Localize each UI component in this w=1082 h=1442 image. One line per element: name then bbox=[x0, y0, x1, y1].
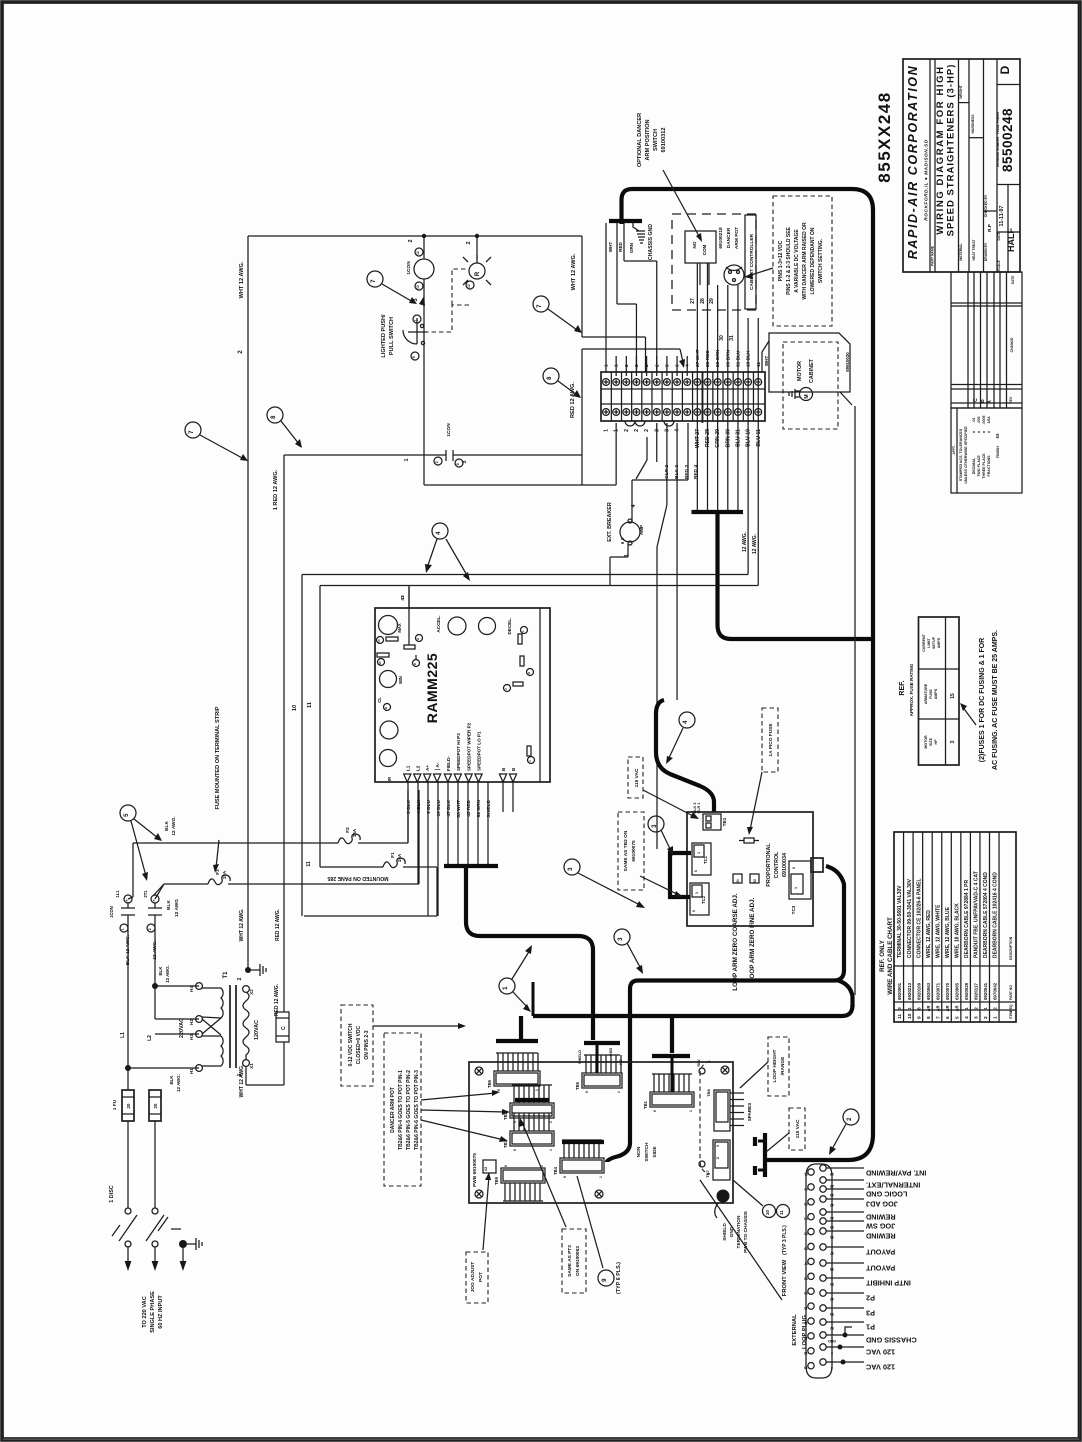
svg-text:SWITCH: SWITCH bbox=[644, 1142, 650, 1161]
svg-text:39: 39 bbox=[830, 1225, 834, 1229]
svg-text:TB6: TB6 bbox=[487, 1079, 492, 1088]
svg-text:POT: POT bbox=[478, 1272, 484, 1282]
0-12 vdc switch tag bbox=[341, 1005, 373, 1086]
svg-text:B: B bbox=[501, 767, 506, 771]
svg-text:DECEL.: DECEL. bbox=[507, 618, 512, 635]
svg-text:CHECKED BY: CHECKED BY bbox=[984, 194, 988, 217]
dsub dashed outline bbox=[700, 1061, 710, 1174]
svg-text:TC3: TC3 bbox=[791, 905, 796, 914]
svg-text:31: 31 bbox=[736, 879, 740, 883]
svg-text:PINS 1-2 & 2-3 SHOULD SEE: PINS 1-2 & 2-3 SHOULD SEE bbox=[786, 226, 792, 294]
svg-text:PAYOUT: PAYOUT bbox=[865, 1248, 895, 1257]
contactor 1CON coil bbox=[423, 236, 425, 259]
dancer pot bbox=[724, 265, 744, 285]
wht wire to terminal strip bbox=[581, 236, 583, 337]
heavy jumper TC1/TC2 bbox=[670, 853, 691, 897]
svg-text:WHT: WHT bbox=[764, 356, 769, 367]
svg-text:CHASSIS GND: CHASSIS GND bbox=[648, 224, 654, 260]
svg-text:LOWERED DEPENDANT ON: LOWERED DEPENDANT ON bbox=[810, 227, 816, 294]
proportional control box bbox=[687, 812, 813, 926]
svg-text:LIMIT: LIMIT bbox=[927, 638, 931, 648]
svg-text:2: 2 bbox=[504, 688, 508, 690]
svg-text:SCALE: SCALE bbox=[997, 260, 1001, 272]
wire 10 vertical bbox=[301, 575, 303, 917]
connector TB7 bbox=[713, 1140, 730, 1180]
svg-text:WHT 12 AWG.: WHT 12 AWG. bbox=[239, 1064, 245, 1097]
svg-text:RAPID-AIR CORPORATION: RAPID-AIR CORPORATION bbox=[906, 65, 920, 259]
svg-text:1: 1 bbox=[983, 1007, 988, 1010]
svg-text:2: 2 bbox=[408, 239, 414, 242]
circles 10 11 bbox=[763, 1205, 776, 1218]
svg-text:PWB 69100075: PWB 69100075 bbox=[472, 1153, 478, 1187]
svg-text:AC FUSING. AC FUSE MUST BE 25: AC FUSING. AC FUSE MUST BE 25 AMPS. bbox=[992, 630, 999, 770]
note circle 7 top bbox=[367, 271, 383, 287]
svg-text:1: 1 bbox=[697, 852, 701, 854]
same as TB2 tag bbox=[618, 812, 644, 890]
svg-text:NC: NC bbox=[619, 1059, 623, 1065]
svg-text:1: 1 bbox=[599, 1176, 603, 1178]
wire red 12 awg row bbox=[284, 454, 433, 456]
svg-text:SHIELD: SHIELD bbox=[722, 1223, 728, 1241]
svg-text:10: 10 bbox=[292, 705, 298, 711]
svg-text:3: 3 bbox=[950, 740, 956, 743]
svg-text:L1: L1 bbox=[120, 1032, 126, 1038]
svg-text:TWO PLACE: TWO PLACE bbox=[977, 455, 981, 477]
note circle 8 right bbox=[543, 368, 559, 384]
wires strip to dancer box bbox=[696, 263, 698, 423]
contact 1CON aux bbox=[434, 457, 442, 465]
svg-text:11: 11 bbox=[804, 1321, 808, 1325]
svg-text:03: 03 bbox=[804, 1202, 808, 1206]
svg-text:8: 8 bbox=[547, 376, 553, 380]
svg-text:29: 29 bbox=[709, 298, 715, 304]
svg-text:07: 07 bbox=[804, 1261, 808, 1265]
svg-text:10 BLU: 10 BLU bbox=[436, 799, 442, 816]
svg-text:4: 4 bbox=[436, 531, 442, 535]
svg-text:02: 02 bbox=[804, 1187, 808, 1191]
svg-text:05: 05 bbox=[804, 1232, 808, 1236]
svg-text:1CON: 1CON bbox=[446, 423, 452, 437]
revision table bbox=[951, 272, 1022, 408]
svg-text:CURRENT: CURRENT bbox=[922, 633, 926, 651]
svg-text:12 AWG.: 12 AWG. bbox=[742, 531, 748, 552]
svg-text:3: 3 bbox=[413, 298, 419, 301]
same as PT3 tag bbox=[562, 1229, 586, 1293]
svg-text:PART NO: PART NO bbox=[1009, 985, 1013, 1000]
note circle 7 right bbox=[533, 296, 549, 312]
svg-text:REF. ONLY: REF. ONLY bbox=[879, 939, 886, 972]
svg-text:WITH DANCER ARM RAISED OR: WITH DANCER ARM RAISED OR bbox=[802, 222, 808, 300]
svg-text:.005: .005 bbox=[977, 417, 981, 424]
svg-text:5: 5 bbox=[456, 463, 460, 465]
svg-text:12 AWG.: 12 AWG. bbox=[176, 1074, 181, 1092]
svg-text:47 BLK: 47 BLK bbox=[446, 799, 452, 816]
primary coils bbox=[202, 988, 223, 1018]
svg-text:10: 10 bbox=[467, 284, 471, 288]
junction L1/H junctions bbox=[125, 1065, 131, 1071]
svg-text:SPEEDPOT WIPER P2: SPEEDPOT WIPER P2 bbox=[467, 722, 472, 771]
svg-text:6920001: 6920001 bbox=[897, 982, 902, 1000]
svg-text:15A: 15A bbox=[352, 828, 357, 837]
cabinet controller tag bbox=[745, 215, 756, 309]
svg-text:ROCKFORD,IL ● MADISON,SD: ROCKFORD,IL ● MADISON,SD bbox=[924, 139, 930, 220]
svg-text:JOG ADJ: JOG ADJ bbox=[866, 1200, 898, 1209]
pcb board PWB 69100075 bbox=[469, 1062, 733, 1218]
svg-text:SETUP: SETUP bbox=[932, 636, 936, 649]
svg-text:O: O bbox=[527, 671, 531, 674]
svg-text:P3: P3 bbox=[866, 1309, 875, 1318]
heavy branch to TB1 pcb bbox=[670, 1016, 674, 1053]
svg-text:TB2&6 PIN-6 GOES TO POT PIN-3: TB2&6 PIN-6 GOES TO POT PIN-3 bbox=[414, 1070, 420, 1150]
svg-text:DRAWN BY: DRAWN BY bbox=[984, 242, 988, 261]
svg-text:R.P: R.P bbox=[987, 224, 992, 232]
plug pins right column + leader lines bbox=[820, 1165, 826, 1171]
1A pico fuse tag bbox=[762, 708, 778, 772]
wire blk 2 long bbox=[666, 423, 668, 505]
svg-text:(TYP 6 PLS.): (TYP 6 PLS.) bbox=[616, 1262, 622, 1294]
svg-text:2: 2 bbox=[716, 1157, 720, 1159]
svg-text:6 3: 6 3 bbox=[620, 537, 625, 544]
thick shielded cable run (main loop) bbox=[622, 189, 874, 1160]
svg-text:69100312: 69100312 bbox=[661, 128, 667, 153]
svg-text:FUSE MOUNTED ON TERMINAL STRIP: FUSE MOUNTED ON TERMINAL STRIP bbox=[215, 706, 221, 809]
svg-text:FINISH: FINISH bbox=[996, 446, 1000, 458]
svg-text:06: 06 bbox=[804, 1247, 808, 1251]
arrow from pins note to pot bbox=[748, 268, 773, 276]
svg-text:120VAC: 120VAC bbox=[254, 1020, 260, 1040]
svg-text:LOOP ARM ZERO FINE ADJ.: LOOP ARM ZERO FINE ADJ. bbox=[749, 897, 756, 982]
svg-text:2: 2 bbox=[624, 429, 630, 432]
wire red 3 to TB5 bbox=[676, 423, 678, 700]
secondary bbox=[243, 992, 249, 1060]
svg-text:10: 10 bbox=[765, 1210, 770, 1216]
note circle 3 left bbox=[564, 859, 580, 875]
svg-text:09: 09 bbox=[804, 1291, 808, 1295]
svg-text:TC2: TC2 bbox=[701, 895, 706, 904]
red wire to terminal 9 bbox=[581, 349, 583, 455]
primary terminals bbox=[196, 983, 203, 990]
svg-text:MATERIAL: MATERIAL bbox=[959, 243, 963, 260]
heavy cable TC3 down bbox=[607, 866, 844, 1162]
note circle 4 bbox=[432, 523, 448, 539]
heavy cable along 1016 bbox=[533, 1005, 853, 1016]
svg-text:REWIND: REWIND bbox=[866, 1232, 896, 1241]
svg-text:TB1: TB1 bbox=[722, 817, 727, 826]
svg-text:PANDUIT FBE. UNFPAVVAD-C 4 CA: PANDUIT FBE. UNFPAVVAD-C 4 CAT bbox=[974, 871, 980, 958]
svg-text:19: 19 bbox=[830, 1172, 834, 1176]
TB1 connector bbox=[703, 814, 721, 830]
svg-text:TO 220 VAC: TO 220 VAC bbox=[142, 1296, 148, 1328]
secondary loop bbox=[245, 1066, 247, 1085]
svg-text:LOOP HEIGHT: LOOP HEIGHT bbox=[772, 1049, 778, 1082]
TC2 bbox=[690, 883, 709, 915]
svg-text:120 VAC: 120 VAC bbox=[865, 1348, 895, 1357]
svg-text:1: 1 bbox=[695, 892, 699, 894]
svg-text:6: 6 bbox=[497, 1089, 501, 1091]
fuse C bbox=[276, 1012, 289, 1042]
svg-text:IR: IR bbox=[387, 777, 392, 781]
svg-text:6: 6 bbox=[792, 867, 796, 869]
svg-text:2T1: 2T1 bbox=[143, 890, 148, 898]
svg-text:TB4: TB4 bbox=[553, 1166, 558, 1175]
svg-text:CABINET CONTROLLER: CABINET CONTROLLER bbox=[749, 233, 755, 289]
svg-text:SHIELD: SHIELD bbox=[486, 799, 492, 817]
note circle 2 bbox=[843, 1109, 859, 1125]
svg-text:TC1: TC1 bbox=[703, 855, 708, 864]
motor cabinet dashed box bbox=[783, 342, 838, 429]
svg-text:ARM POT: ARM POT bbox=[734, 227, 740, 249]
svg-text:REQ: REQ bbox=[1009, 1004, 1013, 1011]
svg-text:7: 7 bbox=[935, 1016, 941, 1019]
svg-text:3: 3 bbox=[618, 937, 624, 941]
tolerance block bbox=[951, 408, 1022, 493]
heavy bus bar bbox=[692, 510, 744, 514]
dancer arm pot tag bbox=[384, 1033, 421, 1186]
svg-text:WIRE, 12 AWG, WHITE: WIRE, 12 AWG, WHITE bbox=[935, 904, 941, 958]
svg-text:5 BLK: 5 BLK bbox=[406, 799, 412, 813]
svg-text:27: 27 bbox=[690, 298, 696, 304]
svg-text:EXT. BREAKER: EXT. BREAKER bbox=[607, 502, 613, 542]
svg-text:1: 1 bbox=[414, 319, 418, 321]
svg-text:2: 2 bbox=[831, 1351, 833, 1355]
svg-text:3: 3 bbox=[568, 867, 574, 871]
cable shield bar top bbox=[609, 219, 642, 223]
svg-text:15: 15 bbox=[950, 693, 956, 699]
svg-text:10: 10 bbox=[804, 1306, 808, 1310]
svg-text:F1: F1 bbox=[390, 852, 395, 858]
svg-text:01: 01 bbox=[804, 1172, 808, 1176]
svg-text:P1: P1 bbox=[866, 1323, 875, 1332]
svg-text:1/64: 1/64 bbox=[987, 417, 991, 424]
svg-text:85500248: 85500248 bbox=[1000, 108, 1015, 172]
svg-text:PAYOUT: PAYOUT bbox=[865, 1264, 895, 1273]
svg-text:855XX248: 855XX248 bbox=[875, 91, 894, 182]
svg-text:52: 52 bbox=[378, 661, 382, 665]
connector TB6 bbox=[487, 1053, 540, 1091]
svg-text:CABINET: CABINET bbox=[809, 358, 815, 383]
svg-text:FIELD-: FIELD- bbox=[446, 756, 451, 771]
svg-text:WHT 12 AWG.: WHT 12 AWG. bbox=[239, 261, 245, 298]
svg-text:1: 1 bbox=[549, 1149, 553, 1151]
svg-text:WEIGHT: WEIGHT bbox=[959, 84, 963, 98]
connector TB5 bbox=[575, 1055, 622, 1093]
svg-text:ON 69100053: ON 69100053 bbox=[575, 1246, 581, 1276]
core bbox=[229, 985, 231, 1068]
svg-text:C: C bbox=[973, 398, 979, 402]
svg-text:1: 1 bbox=[964, 1007, 969, 1010]
svg-text:B: B bbox=[511, 767, 516, 771]
svg-text:37: 37 bbox=[830, 1251, 834, 1255]
connector TB3 bbox=[503, 1113, 554, 1151]
svg-text:SAME AS PT3: SAME AS PT3 bbox=[567, 1245, 573, 1277]
svg-text:BLK: BLK bbox=[164, 821, 170, 831]
svg-text:.0005: .0005 bbox=[982, 416, 986, 425]
svg-text:11: 11 bbox=[779, 1210, 784, 1215]
svg-text:42: 42 bbox=[830, 1297, 834, 1301]
input arrows bbox=[127, 1247, 129, 1262]
svg-text:(TYP 3 PLS.): (TYP 3 PLS.) bbox=[782, 1225, 788, 1255]
svg-text:A VARIABLE DC VOLTAGE: A VARIABLE DC VOLTAGE bbox=[794, 229, 800, 293]
svg-text:D: D bbox=[413, 662, 417, 665]
pilot lamp R bbox=[476, 236, 478, 263]
svg-text:TB8: TB8 bbox=[706, 1088, 711, 1096]
svg-text:12: 12 bbox=[416, 251, 420, 255]
svg-text:BLK: BLK bbox=[166, 900, 172, 910]
svg-text:5: 5 bbox=[955, 1016, 961, 1019]
svg-text:11: 11 bbox=[307, 702, 313, 708]
wire clr 2 stub bbox=[656, 423, 658, 462]
svg-text:30: 30 bbox=[719, 335, 725, 341]
svg-text:69100034: 69100034 bbox=[782, 853, 788, 877]
svg-text:12 AWG.: 12 AWG. bbox=[152, 940, 158, 959]
svg-text:RED 12 AWG.: RED 12 AWG. bbox=[274, 983, 280, 1016]
svg-text:GRN: GRN bbox=[629, 242, 634, 253]
svg-text:52: 52 bbox=[753, 879, 757, 883]
svg-text:6: 6 bbox=[692, 910, 696, 912]
svg-text:PULL SWITCH: PULL SWITCH bbox=[389, 317, 395, 355]
svg-text:7: 7 bbox=[189, 430, 195, 434]
svg-text:DATE: DATE bbox=[997, 231, 1001, 241]
svg-text:1 FU: 1 FU bbox=[112, 1099, 118, 1110]
svg-text:DESCRIPTION: DESCRIPTION bbox=[1009, 936, 1013, 960]
svg-text:ACCEL.: ACCEL. bbox=[436, 615, 441, 632]
svg-text:4: 4 bbox=[683, 720, 689, 724]
svg-text:13: 13 bbox=[416, 285, 420, 289]
external loop plug body bbox=[806, 1164, 832, 1378]
leader TB4 to 9 bbox=[577, 1176, 603, 1268]
note circle 9 bbox=[598, 1270, 614, 1286]
svg-text:6: 6 bbox=[513, 1149, 517, 1151]
contact 1L2/1T2 bbox=[151, 895, 159, 903]
svg-text:PROPORTIONAL: PROPORTIONAL bbox=[766, 843, 772, 887]
svg-text:20: 20 bbox=[126, 1103, 131, 1108]
svg-text:69100075: 69100075 bbox=[631, 840, 637, 862]
note circle 1 bbox=[499, 978, 515, 994]
svg-text:MOUNTED ON PANE 285: MOUNTED ON PANE 285 bbox=[327, 875, 388, 881]
connector TB1 bbox=[643, 1074, 694, 1112]
svg-text:DANCER ARM POT: DANCER ARM POT bbox=[390, 1087, 396, 1133]
svg-text:/RANGE: /RANGE bbox=[780, 1056, 786, 1075]
svg-text:X1: X1 bbox=[249, 1063, 254, 1069]
svg-text:6920070: 6920070 bbox=[945, 982, 950, 1000]
svg-text:MOTOR: MOTOR bbox=[797, 361, 803, 381]
wires below strip bbox=[696, 423, 698, 512]
NO/COM switch box bbox=[685, 231, 716, 263]
wht/red/grn pigtails at shield bar bbox=[605, 223, 607, 372]
svg-text:CHANGE: CHANGE bbox=[1010, 337, 1014, 352]
svg-text:GND: GND bbox=[609, 1048, 613, 1057]
svg-text:PINS 1-3=12 VDC: PINS 1-3=12 VDC bbox=[778, 240, 784, 281]
svg-text:TB2&6 PIN-5 GOES TO POT PIN-2: TB2&6 PIN-5 GOES TO POT PIN-2 bbox=[406, 1070, 412, 1150]
svg-text:R: R bbox=[475, 271, 481, 276]
note circle 8 left bbox=[267, 407, 283, 423]
svg-text:2: 2 bbox=[974, 1007, 979, 1010]
svg-text:WIRE, 12 AWG, BLUE: WIRE, 12 AWG, BLUE bbox=[945, 906, 951, 958]
svg-text:TB9: TB9 bbox=[494, 1176, 499, 1185]
svg-text:41: 41 bbox=[830, 1216, 834, 1220]
svg-text:HALF: HALF bbox=[1006, 228, 1016, 252]
svg-text:3: 3 bbox=[716, 1145, 720, 1147]
svg-text:15A: 15A bbox=[222, 870, 227, 879]
svg-text:AMP: AMP bbox=[639, 525, 644, 535]
cable end bar at TB7 bbox=[763, 1133, 767, 1177]
svg-text:X2: X2 bbox=[249, 989, 254, 995]
TC3 plug stub bbox=[811, 858, 823, 872]
svg-text:3: 3 bbox=[897, 1007, 902, 1010]
TC3 bbox=[789, 861, 811, 899]
svg-text:A: A bbox=[987, 400, 993, 404]
svg-text:6920041: 6920041 bbox=[983, 982, 988, 1000]
svg-text:RED: RED bbox=[618, 241, 623, 251]
svg-text:TB2&6 PIN-4 GOES TO POT PIN-1: TB2&6 PIN-4 GOES TO POT PIN-1 bbox=[398, 1070, 404, 1150]
stub at 533 bbox=[532, 982, 535, 1016]
connector TB2 bbox=[503, 1085, 554, 1123]
svg-text:L1: L1 bbox=[405, 765, 410, 771]
heavy wire 115vac to TB1 bbox=[656, 700, 714, 812]
svg-text:11: 11 bbox=[897, 1014, 903, 1019]
dashed link switch to lamp bbox=[424, 305, 469, 332]
svg-text:6920213: 6920213 bbox=[907, 982, 912, 1000]
svg-text:SHIELD: SHIELD bbox=[578, 1050, 582, 1064]
svg-text:1: 1 bbox=[617, 1091, 621, 1093]
svg-text:TERMINAL 30-50-5691 VAL30V: TERMINAL 30-50-5691 VAL30V bbox=[897, 885, 903, 958]
note circle 7 left bbox=[185, 422, 201, 438]
gnd input bbox=[179, 1240, 187, 1248]
svg-text:3: 3 bbox=[462, 460, 468, 463]
svg-text:1: 1 bbox=[404, 458, 410, 461]
svg-text:APPT.: APPT. bbox=[952, 445, 956, 454]
svg-text:20: 20 bbox=[153, 1103, 158, 1108]
svg-text:9: 9 bbox=[412, 356, 416, 358]
svg-text:220VAC: 220VAC bbox=[179, 1018, 185, 1038]
dancer dashed box bbox=[672, 214, 756, 310]
svg-text:UNLESS OTHERWISE SPECIFIED: UNLESS OTHERWISE SPECIFIED bbox=[964, 426, 968, 484]
svg-text:1: 1 bbox=[993, 1016, 999, 1019]
title block bbox=[903, 59, 1020, 272]
svg-text:HP: HP bbox=[934, 739, 938, 745]
wire 11 vertical bbox=[319, 586, 321, 868]
svg-text:AMPS: AMPS bbox=[934, 688, 938, 699]
svg-text:11: 11 bbox=[306, 861, 312, 867]
svg-text:CONTROL: CONTROL bbox=[774, 851, 780, 878]
connector TB8 bbox=[714, 1090, 730, 1131]
svg-text:L2: L2 bbox=[415, 765, 420, 771]
svg-text:SPEEDPOT HI P3: SPEEDPOT HI P3 bbox=[456, 733, 461, 771]
svg-text:04: 04 bbox=[804, 1217, 808, 1221]
svg-text:2: 2 bbox=[237, 977, 243, 980]
svg-text:2: 2 bbox=[993, 1007, 998, 1010]
svg-text:4: 4 bbox=[964, 1016, 970, 1019]
svg-text:BLK: BLK bbox=[158, 966, 163, 976]
svg-text:DEARBORN CABLE 572804 4 COND: DEARBORN CABLE 572804 4 COND bbox=[983, 872, 989, 958]
fuse 1FU L1 bbox=[122, 1090, 134, 1121]
svg-text:SPEED STRAIGHTENERS (3-HP): SPEED STRAIGHTENERS (3-HP) bbox=[946, 64, 957, 237]
svg-text:P2: P2 bbox=[866, 1294, 875, 1303]
svg-text:MAX: MAX bbox=[397, 623, 402, 633]
svg-text:HEAT TREAT: HEAT TREAT bbox=[972, 239, 976, 261]
motor cabinet solid box bbox=[769, 333, 850, 392]
svg-text:9: 9 bbox=[602, 1278, 608, 1282]
motor cable vertical bbox=[854, 406, 856, 995]
svg-text:T1: T1 bbox=[223, 971, 229, 979]
svg-text:ARMATURE: ARMATURE bbox=[924, 683, 928, 704]
svg-text:5: 5 bbox=[124, 813, 130, 817]
svg-text:L2: L2 bbox=[147, 1035, 153, 1041]
svg-text:JOG SW: JOG SW bbox=[866, 1222, 895, 1231]
wire 11 horizontal bbox=[320, 585, 758, 587]
svg-text:MOTOR: MOTOR bbox=[924, 735, 928, 749]
svg-text:APPROX. FUSE RATING: APPROX. FUSE RATING bbox=[909, 663, 914, 716]
